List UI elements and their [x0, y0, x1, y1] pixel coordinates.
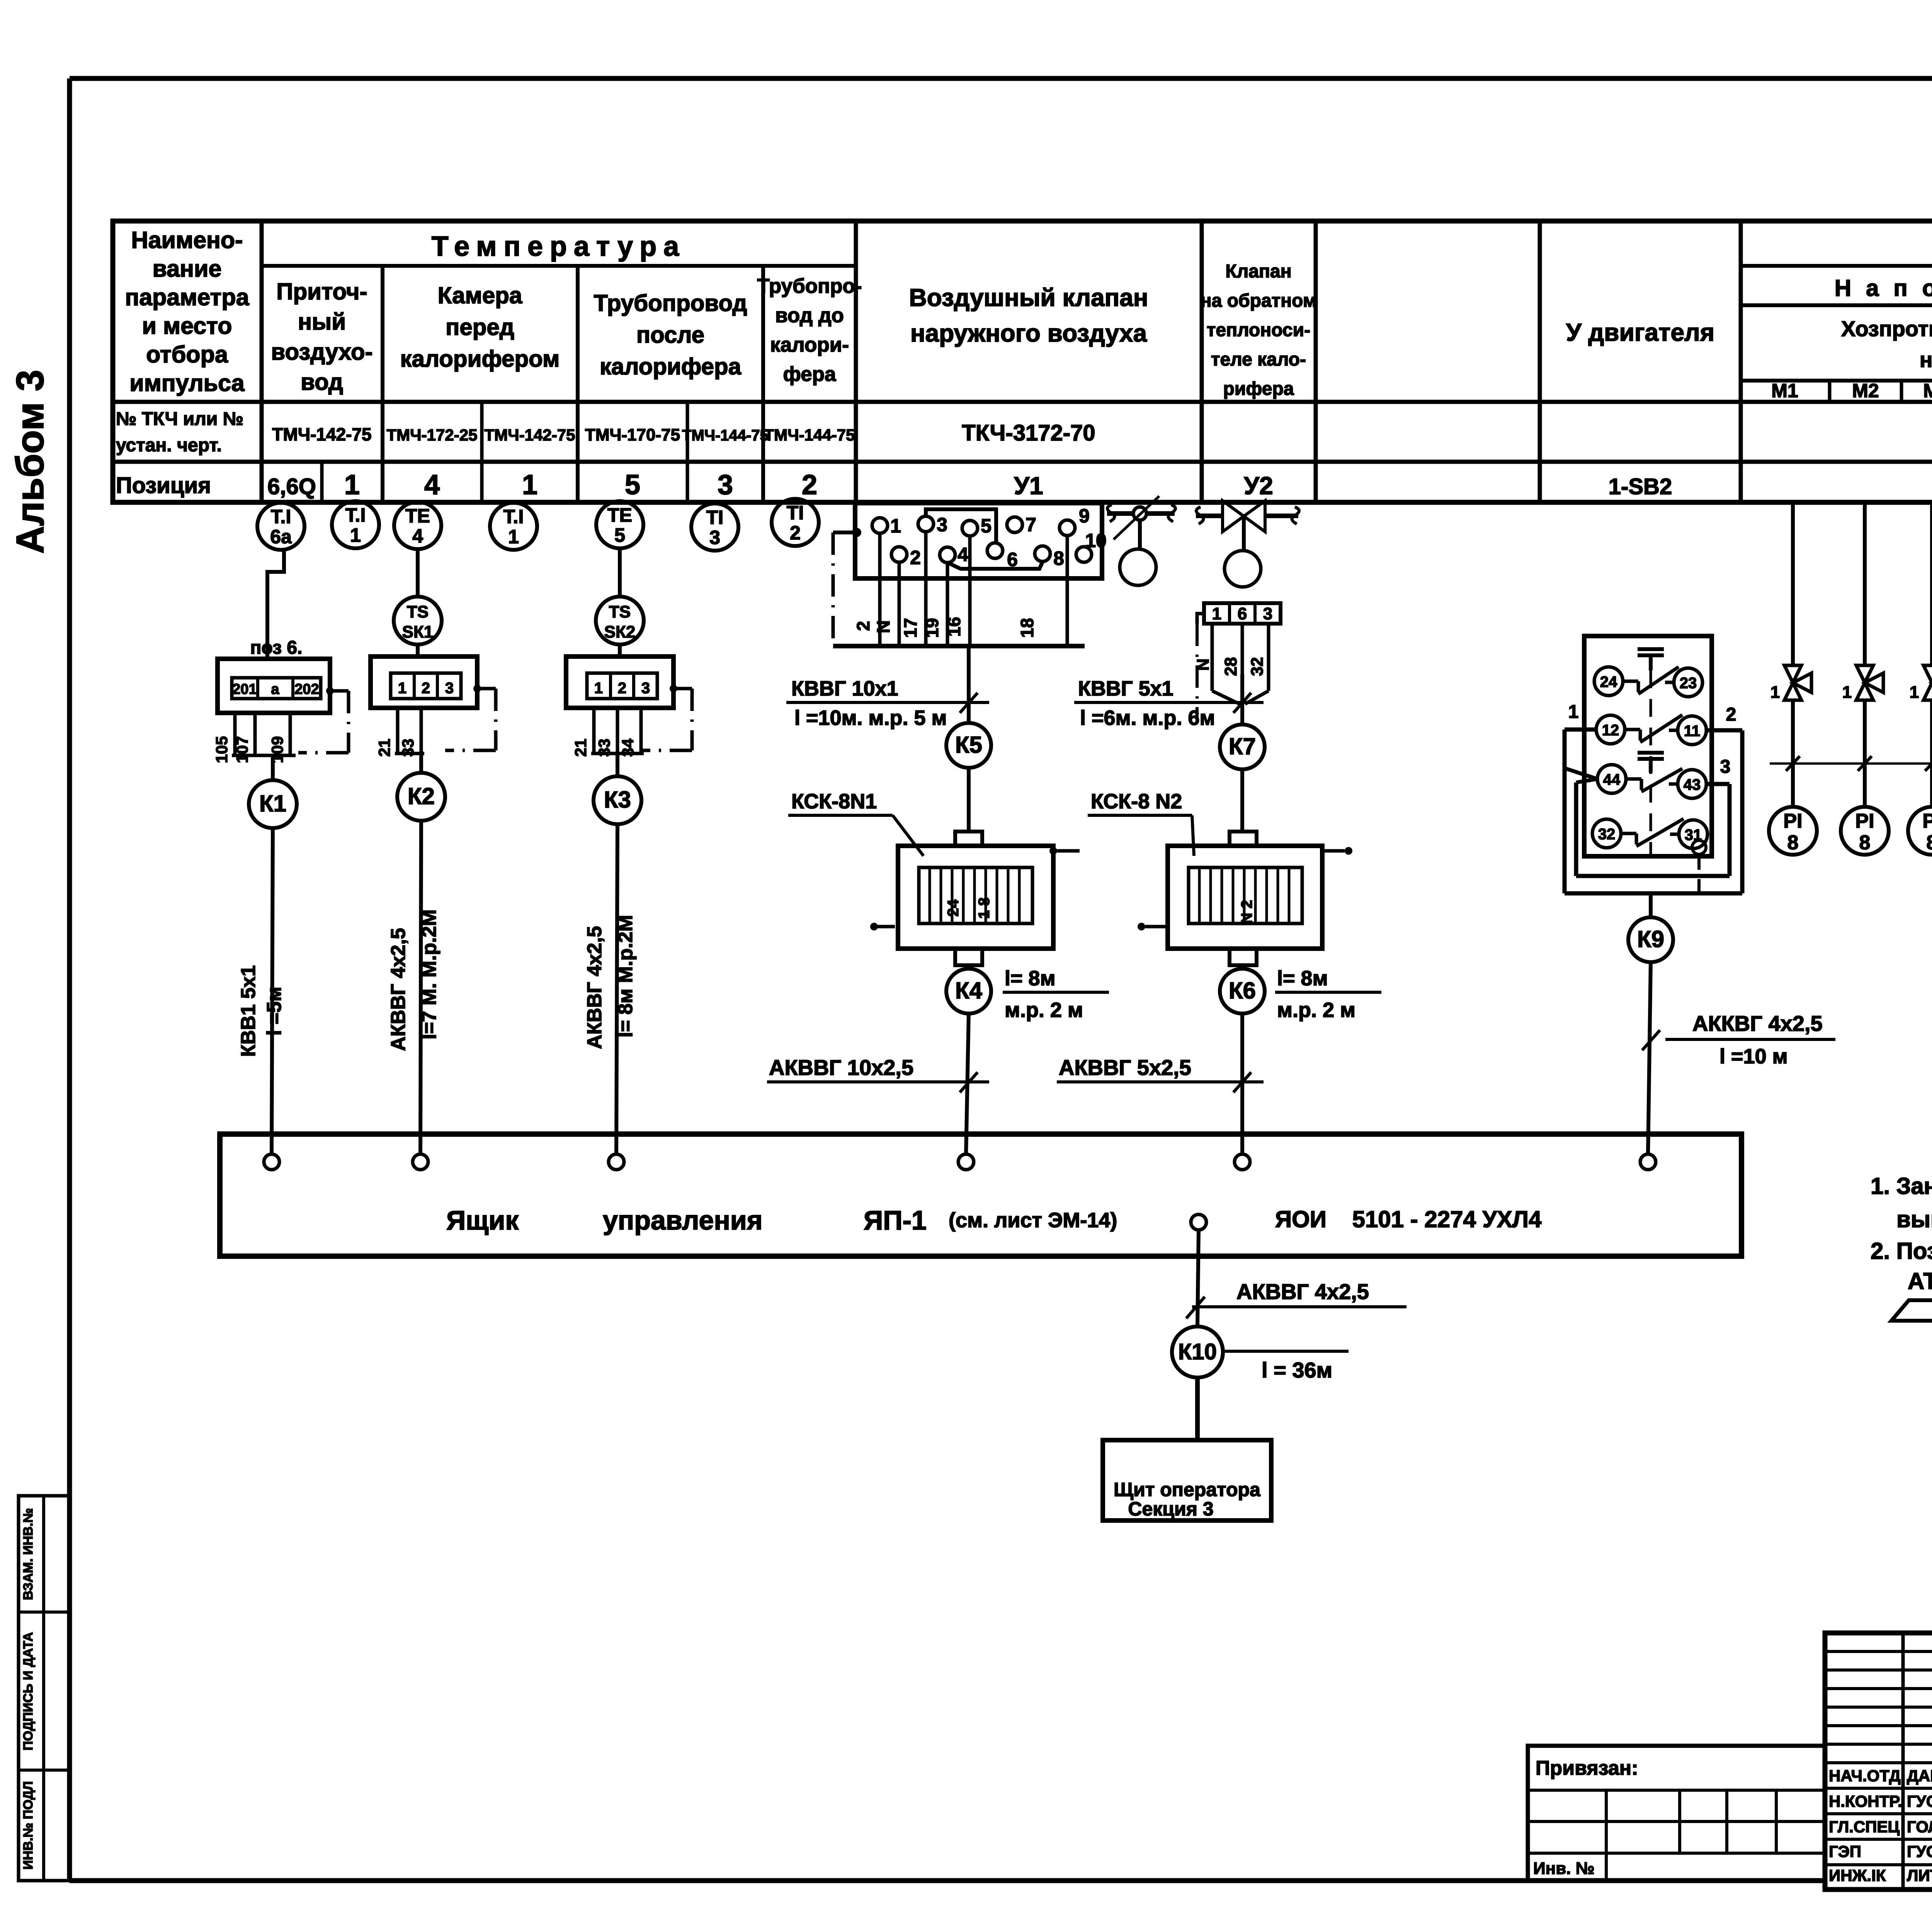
- svg-text:Инв. №: Инв. №: [1533, 1859, 1595, 1878]
- svg-text:107: 107: [233, 736, 251, 763]
- svg-text:11: 11: [1684, 723, 1700, 740]
- svg-text:1: 1: [1842, 683, 1852, 702]
- svg-text:ТI: ТI: [787, 502, 804, 524]
- svg-text:8: 8: [1787, 832, 1799, 854]
- wires 21 33 34: [592, 708, 596, 753]
- svg-text:калори-: калори-: [770, 333, 849, 356]
- svg-text:ГУСЕВА: ГУСЕВА: [1907, 1792, 1932, 1810]
- svg-text:ИНЖ.IК: ИНЖ.IК: [1829, 1866, 1886, 1884]
- sensor TI-1: [332, 501, 379, 548]
- terminal 2: [891, 547, 907, 562]
- svg-text:4: 4: [957, 544, 968, 565]
- svg-text:3: 3: [641, 680, 650, 697]
- shield wire: [833, 531, 857, 534]
- svg-text:К3: К3: [604, 787, 631, 813]
- svg-text:ГОЛЬЦМАН: ГОЛЬЦМАН: [1907, 1818, 1932, 1836]
- svg-text:1: 1: [398, 680, 406, 697]
- contact 12-11: [1596, 715, 1625, 744]
- svg-text:КВВ1 5х1: КВВ1 5х1: [237, 965, 260, 1057]
- thermostat TS-SK2: [596, 597, 644, 645]
- svg-text:У1: У1: [1014, 472, 1043, 500]
- svg-text:К9: К9: [1637, 926, 1664, 952]
- svg-text:Трубопровод: Трубопровод: [594, 290, 747, 316]
- title block: [1825, 1633, 1932, 1889]
- valve U1 symbol: [1107, 511, 1175, 516]
- svg-text:33: 33: [595, 739, 613, 757]
- svg-text:поз 6.: поз 6.: [250, 638, 303, 658]
- junction box K4: [946, 969, 991, 1014]
- thermostat TS-SK1: [394, 597, 442, 645]
- sensor TI-2: [772, 499, 819, 546]
- svg-text:33: 33: [399, 739, 417, 757]
- svg-text:23: 23: [1680, 675, 1697, 692]
- svg-text:N: N: [873, 620, 893, 633]
- svg-text:№ ТКЧ или №: № ТКЧ или №: [116, 409, 243, 429]
- svg-text:Трубопро-: Трубопро-: [757, 275, 862, 298]
- sensor TI-6a: [257, 503, 304, 550]
- dash-dot hook right: [1049, 847, 1057, 855]
- svg-text:Привязан:: Привязан:: [1536, 1757, 1638, 1779]
- terminal 3: [918, 516, 934, 532]
- box terminal: [1640, 1154, 1656, 1170]
- cable AKVVG 4x2.5 wire: [616, 824, 617, 1154]
- svg-text:6а: 6а: [270, 526, 292, 548]
- svg-text:Т.I: Т.I: [345, 504, 366, 526]
- junction box K2: [397, 773, 445, 821]
- ground terminal: [1692, 840, 1706, 854]
- svg-text:теле кало-: теле кало-: [1211, 349, 1306, 370]
- junction dot: [852, 528, 861, 537]
- svg-text:18: 18: [1017, 618, 1037, 638]
- connector KCK-8 N2: [1230, 832, 1257, 846]
- svg-text:ТS: ТS: [407, 602, 429, 621]
- svg-text:ТМЧ-170-75: ТМЧ-170-75: [585, 425, 680, 444]
- svg-text:1: 1: [1910, 683, 1919, 702]
- svg-text:N 2: N 2: [1238, 900, 1255, 924]
- svg-text:Хозпротивопожарные: Хозпротивопожарные: [1841, 316, 1932, 341]
- junction box K1: [249, 780, 297, 828]
- svg-text:м.р. 2 м: м.р. 2 м: [1277, 998, 1355, 1022]
- svg-text:АКВВГ 10х2,5: АКВВГ 10х2,5: [769, 1055, 913, 1080]
- svg-text:АККВГ 4х2,5: АККВГ 4х2,5: [1692, 1011, 1823, 1036]
- svg-text:ЯОИ 5101 - 2274 УХЛ4: ЯОИ 5101 - 2274 УХЛ4: [1275, 1206, 1542, 1232]
- coil symbol top: [1638, 647, 1664, 651]
- loop pin 3: [1707, 782, 1730, 786]
- svg-text:l = 36м: l = 36м: [1262, 1358, 1332, 1382]
- svg-text:а: а: [271, 681, 279, 697]
- svg-text:PI: PI: [1855, 810, 1874, 832]
- cable AKVVG 4x2.5 wire: [420, 821, 421, 1154]
- svg-text:ТМЧ-144-75: ТМЧ-144-75: [764, 426, 855, 444]
- gauge PI 8: [1769, 807, 1817, 855]
- svg-text:l =5м: l =5м: [263, 986, 286, 1036]
- svg-text:фера: фера: [783, 363, 836, 386]
- junction box SK2 terminals: [566, 656, 673, 708]
- svg-text:М1: М1: [1771, 380, 1798, 401]
- wire TI-6a to box поз.6: [267, 548, 284, 659]
- svg-text:рифера: рифера: [1223, 379, 1294, 399]
- svg-text:ИНВ.№ ПОДЛ: ИНВ.№ ПОДЛ: [21, 1781, 36, 1870]
- jumper 4-8: [947, 562, 1043, 569]
- svg-text:Позиция: Позиция: [116, 473, 211, 498]
- svg-text:l=7 М. М.р.2М: l=7 М. М.р.2М: [418, 909, 440, 1039]
- fill-at-binding symbol: [1891, 1300, 1932, 1321]
- svg-text:устан. черт.: устан. черт.: [116, 435, 222, 456]
- svg-text:ЛИТВИНОВА: ЛИТВИНОВА: [1907, 1866, 1932, 1884]
- sensor TE-4: [394, 502, 441, 549]
- svg-text:17: 17: [900, 618, 920, 638]
- svg-text:1: 1: [344, 469, 360, 500]
- binding box: [1528, 1746, 1825, 1881]
- wire to K2: [419, 753, 423, 773]
- box terminal: [413, 1154, 428, 1170]
- svg-text:3: 3: [1720, 757, 1731, 777]
- svg-text:отбора: отбора: [146, 341, 228, 367]
- svg-text:и место: и место: [142, 313, 232, 339]
- terminal 5: [962, 520, 978, 536]
- svg-text:АКВВГ 4х2,5: АКВВГ 4х2,5: [1236, 1279, 1369, 1304]
- svg-text:ПОДПИСЬ И ДАТА: ПОДПИСЬ И ДАТА: [21, 1632, 36, 1750]
- wire to operator board: [1195, 1378, 1200, 1440]
- terminal 9: [1060, 520, 1075, 536]
- svg-text:201: 201: [232, 681, 257, 697]
- svg-text:105: 105: [213, 736, 231, 763]
- svg-text:1: 1: [1212, 604, 1221, 623]
- svg-text:выполнить согласно ПУЭ-85 § 1: выполнить согласно ПУЭ-85 § 1-7-46: [1896, 1206, 1932, 1232]
- wire to K9: [1649, 893, 1653, 917]
- terminal 1: [872, 518, 888, 533]
- loop pins 1-2: [1565, 728, 1596, 732]
- impulse line PI-8: [1930, 502, 1932, 665]
- svg-text:21: 21: [571, 739, 590, 757]
- impulse pipe manifold: [1770, 762, 1932, 765]
- svg-text:1: 1: [594, 680, 603, 697]
- sidebar stamp boxes: [19, 1496, 70, 1881]
- svg-text:К2: К2: [408, 783, 435, 809]
- svg-text:У2: У2: [1244, 472, 1273, 500]
- svg-text:Секция 3: Секция 3: [1128, 1498, 1213, 1520]
- svg-text:Н.КОНТР.: Н.КОНТР.: [1829, 1792, 1902, 1810]
- svg-text:1: 1: [508, 526, 519, 548]
- svg-text:АТХ- СО1: АТХ- СО1: [1908, 1268, 1932, 1294]
- svg-text:2: 2: [853, 621, 873, 631]
- svg-text:7: 7: [1026, 514, 1036, 536]
- control box YaP-1: [220, 1134, 1742, 1256]
- svg-text:вание: вание: [153, 255, 222, 282]
- box terminal: [1235, 1154, 1250, 1170]
- svg-text:НАЧ.ОТД: НАЧ.ОТД: [1829, 1767, 1901, 1785]
- svg-text:ТКЧ-3172-70: ТКЧ-3172-70: [962, 420, 1095, 446]
- valve U2 symbol: [1196, 514, 1223, 518]
- svg-text:Т.I: Т.I: [271, 506, 291, 527]
- svg-text:5: 5: [981, 515, 992, 537]
- svg-text:4: 4: [424, 469, 440, 500]
- valve U1 terminal block: [855, 503, 1102, 578]
- svg-text:l =6м. м.р. 6м: l =6м. м.р. 6м: [1080, 706, 1215, 730]
- junction box SK1 terminals: [371, 656, 477, 708]
- gauge PI 8: [1908, 807, 1932, 855]
- svg-text:КВВГ 10х1: КВВГ 10х1: [791, 677, 898, 700]
- svg-text:Клапан: Клапан: [1225, 261, 1291, 282]
- svg-text:6: 6: [1238, 604, 1247, 623]
- svg-text:21: 21: [375, 739, 393, 757]
- svg-text:24: 24: [1600, 673, 1617, 690]
- wire to K3: [616, 753, 619, 776]
- svg-text:Напорный: Напорный: [1835, 275, 1932, 301]
- svg-text:К4: К4: [955, 978, 983, 1003]
- svg-text:ТМЧ-142-75: ТМЧ-142-75: [272, 424, 371, 444]
- parameter table: [113, 221, 1932, 502]
- svg-text:12: 12: [1602, 722, 1619, 739]
- svg-text:Щит оператора: Щит оператора: [1114, 1479, 1261, 1500]
- svg-text:3: 3: [718, 469, 733, 500]
- wire to K4: [967, 965, 971, 969]
- sensor TI-1b: [490, 503, 537, 550]
- svg-text:перед: перед: [446, 314, 514, 340]
- svg-text:ГЭП: ГЭП: [1829, 1842, 1861, 1861]
- svg-text:К6: К6: [1229, 978, 1256, 1003]
- svg-text:l= 8м: l= 8м: [1005, 967, 1056, 990]
- svg-text:Камера: Камера: [438, 282, 522, 308]
- collector bus: [833, 644, 1085, 648]
- svg-text:на обратном: на обратном: [1201, 291, 1317, 311]
- impulse line PI-8: [1863, 502, 1867, 665]
- terminal 6: [987, 543, 1003, 558]
- jumper 3-6: [926, 509, 996, 543]
- svg-text:У двигателя: У двигателя: [1566, 318, 1714, 346]
- cable AKKVG 4x2.5 wire: [1648, 962, 1651, 1154]
- svg-text:2: 2: [1726, 704, 1736, 725]
- svg-text:3: 3: [445, 680, 454, 697]
- contact 32-31: [1592, 819, 1621, 848]
- wires 105 107 109: [233, 713, 237, 755]
- svg-text:параметра: параметра: [125, 284, 249, 310]
- terminal K10: [1191, 1214, 1206, 1230]
- dash-dot hook right: [1322, 849, 1347, 853]
- svg-text:(см. лист ЭМ-14): (см. лист ЭМ-14): [949, 1209, 1117, 1232]
- cable AKVVG 10x2.5 wire: [966, 1014, 969, 1154]
- wire TS-SK1 to box 2: [416, 644, 420, 656]
- svg-text:1: 1: [522, 469, 537, 500]
- svg-text:Наимено-: Наимено-: [131, 227, 243, 253]
- wire TE-4 to TS-SK1: [416, 547, 420, 597]
- svg-text:М2: М2: [1852, 380, 1879, 401]
- svg-text:l =10 м: l =10 м: [1719, 1045, 1788, 1068]
- sensor TE-5: [596, 501, 643, 548]
- svg-text:АКВВГ 4х2,5: АКВВГ 4х2,5: [583, 926, 606, 1049]
- terminal 7: [1007, 517, 1022, 532]
- svg-text:1. Зануление приборов, соедин: 1. Зануление приборов, соединительных ко…: [1871, 1173, 1932, 1199]
- svg-text:1: 1: [350, 524, 361, 546]
- drop wires 2 N 17 19 16 18: [878, 533, 882, 645]
- svg-text:м.р. 2 м: м.р. 2 м: [1005, 998, 1083, 1022]
- svg-text:SК1: SК1: [402, 622, 434, 641]
- box terminal: [958, 1154, 974, 1170]
- valve U2 actuator: [1225, 551, 1261, 587]
- gauge PI 8: [1841, 807, 1889, 855]
- svg-text:8: 8: [1927, 832, 1932, 854]
- svg-text:2: 2: [422, 680, 430, 697]
- svg-text:КСК-8N1: КСК-8N1: [791, 790, 877, 813]
- svg-text:АКВВГ 4х2,5: АКВВГ 4х2,5: [387, 928, 410, 1051]
- svg-text:ДАНИЛОВ: ДАНИЛОВ: [1907, 1767, 1932, 1785]
- svg-text:ТМЧ-144-75: ТМЧ-144-75: [682, 427, 769, 444]
- svg-text:2. Позиции приборов соответ: 2. Позиции приборов соответствуют специф…: [1871, 1238, 1932, 1264]
- svg-text:SК2: SК2: [604, 622, 636, 641]
- svg-text:32: 32: [1248, 657, 1267, 676]
- svg-text:калорифером: калорифером: [400, 346, 560, 372]
- svg-text:9: 9: [1079, 505, 1090, 527]
- svg-text:2: 2: [802, 469, 817, 500]
- svg-text:l =10м. м.р. 5 м: l =10м. м.р. 5 м: [794, 706, 947, 730]
- svg-text:1: 1: [1770, 683, 1780, 702]
- wire K7 to KCK-8N2: [1240, 769, 1244, 832]
- cable AKVVG 4x2.5 to K10: [1197, 1230, 1199, 1326]
- connector KCK-8 N1: [955, 832, 982, 846]
- svg-text:Альбом 3: Альбом 3: [9, 370, 52, 554]
- wire to K1: [271, 755, 275, 780]
- svg-text:КВВГ 5х1: КВВГ 5х1: [1078, 677, 1173, 700]
- box terminal: [609, 1154, 624, 1170]
- coil symbol middle: [1638, 751, 1664, 755]
- cable KVV1 5x1 wire: [272, 828, 273, 1154]
- svg-text:2: 2: [618, 680, 626, 697]
- center dash line: [1650, 670, 1652, 855]
- svg-text:3: 3: [1263, 604, 1272, 623]
- wires 21 33: [396, 708, 400, 753]
- svg-text:3: 3: [709, 527, 720, 548]
- svg-text:16: 16: [944, 617, 964, 636]
- svg-text:28: 28: [1221, 657, 1240, 676]
- svg-text:К7: К7: [1229, 733, 1256, 759]
- ground dash-dot box 3: [670, 685, 677, 692]
- svg-text:34: 34: [619, 738, 637, 757]
- svg-text:32: 32: [1598, 826, 1616, 843]
- wires N 28 32: [1211, 624, 1214, 691]
- svg-text:ВЗАМ. ИНВ.№: ВЗАМ. ИНВ.№: [21, 1508, 36, 1600]
- dash-dot hook left: [870, 923, 878, 930]
- drop to K5: [967, 646, 971, 723]
- shield hook: [1197, 614, 1204, 624]
- svg-text:ТS: ТS: [609, 602, 631, 621]
- ground dash-dot box 1: [326, 687, 334, 695]
- svg-text:Приточ-: Приточ-: [276, 279, 367, 304]
- wire to K7: [1240, 674, 1244, 724]
- svg-text:М3: М3: [1923, 380, 1932, 401]
- junction box K10: [1172, 1327, 1223, 1378]
- svg-text:воздухо-: воздухо-: [271, 339, 372, 365]
- svg-text:1-SB2: 1-SB2: [1609, 474, 1672, 499]
- svg-text:ТI: ТI: [706, 507, 723, 528]
- svg-text:ТМЧ-142-75: ТМЧ-142-75: [485, 426, 575, 444]
- svg-text:Воздушный клапан: Воздушный клапан: [909, 284, 1148, 311]
- svg-text:Т.I: Т.I: [503, 506, 524, 527]
- svg-text:наружного воздуха: наружного воздуха: [910, 319, 1147, 347]
- svg-text:8: 8: [1859, 832, 1871, 854]
- svg-text:ный: ный: [298, 309, 346, 335]
- svg-text:43: 43: [1684, 776, 1701, 793]
- svg-text:2: 2: [790, 522, 801, 544]
- cable AKVVG 5x2.5 wire: [1240, 1014, 1244, 1154]
- junction box K6: [1220, 969, 1265, 1014]
- svg-text:управления: управления: [603, 1205, 763, 1235]
- svg-text:К1: К1: [259, 791, 286, 816]
- svg-text:2: 2: [910, 547, 921, 568]
- svg-text:вод до: вод до: [775, 304, 844, 327]
- contact 44-43: [1597, 765, 1626, 793]
- svg-text:ГУСЕВА: ГУСЕВА: [1907, 1842, 1932, 1861]
- valve U1 actuator: [1120, 549, 1156, 585]
- svg-text:АКВВГ 5х2,5: АКВВГ 5х2,5: [1059, 1055, 1191, 1080]
- svg-text:ГЛ.СПЕЦ: ГЛ.СПЕЦ: [1829, 1818, 1900, 1836]
- wire TE-5 to TS-SK2: [618, 547, 622, 597]
- svg-text:К5: К5: [955, 732, 982, 758]
- svg-text:l= 8м: l= 8м: [1277, 967, 1328, 990]
- svg-text:202: 202: [294, 681, 319, 697]
- svg-text:1: 1: [1568, 702, 1579, 722]
- junction box K3: [594, 776, 641, 824]
- svg-text:ТЕ: ТЕ: [607, 504, 632, 526]
- svg-text:Ящик: Ящик: [446, 1205, 519, 1235]
- svg-text:PI: PI: [1783, 810, 1802, 832]
- junction box поз.6: [218, 659, 330, 713]
- svg-text:6,6Q: 6,6Q: [267, 474, 316, 499]
- junction box K9: [1628, 917, 1673, 962]
- svg-text:8: 8: [1053, 548, 1064, 569]
- junction box K5: [946, 723, 991, 768]
- svg-text:PI: PI: [1922, 810, 1932, 832]
- svg-text:1 8: 1 8: [976, 897, 993, 919]
- terminal 10: [1076, 547, 1092, 562]
- svg-text:калорифера: калорифера: [600, 354, 742, 379]
- svg-text:10: 10: [1085, 530, 1107, 551]
- svg-text:5: 5: [614, 524, 625, 546]
- wire to K6: [1240, 965, 1244, 969]
- terminal 4: [940, 547, 955, 563]
- wire K5 to KCK-8N1: [967, 768, 971, 832]
- svg-text:ТЕ: ТЕ: [405, 505, 430, 527]
- svg-text:N: N: [1194, 658, 1213, 671]
- impulse line PI-8: [1791, 502, 1795, 665]
- svg-text:4: 4: [412, 525, 423, 547]
- sheet frame: [70, 76, 1932, 81]
- svg-text:Температура: Температура: [432, 231, 686, 262]
- contact 24-23: [1594, 667, 1623, 696]
- svg-text:24: 24: [945, 899, 962, 917]
- terminal 8: [1035, 546, 1050, 561]
- sensor TI-3: [691, 503, 738, 551]
- wire TS-SK2 to box 3: [618, 644, 622, 656]
- svg-text:вод: вод: [301, 369, 343, 395]
- svg-text:импульса: импульса: [129, 370, 245, 396]
- svg-text:после: после: [636, 322, 704, 348]
- svg-text:3: 3: [937, 514, 947, 536]
- svg-text:5: 5: [625, 469, 640, 500]
- terminal box 1 6 3: [1204, 603, 1281, 624]
- svg-text:К10: К10: [1178, 1339, 1217, 1364]
- svg-text:теплоноси-: теплоноси-: [1207, 320, 1310, 340]
- svg-text:ЯП-1: ЯП-1: [864, 1205, 927, 1235]
- box terminal: [264, 1154, 279, 1170]
- svg-text:КСК-8 N2: КСК-8 N2: [1091, 790, 1182, 813]
- svg-text:ТМЧ-172-25: ТМЧ-172-25: [387, 426, 478, 444]
- ground dash-dot box 2: [473, 685, 481, 692]
- svg-text:19: 19: [922, 618, 942, 638]
- dash-dot hook left: [1143, 925, 1168, 929]
- svg-text:1: 1: [890, 515, 901, 537]
- relay unit box: [1584, 636, 1712, 856]
- operator board box: [1103, 1440, 1271, 1520]
